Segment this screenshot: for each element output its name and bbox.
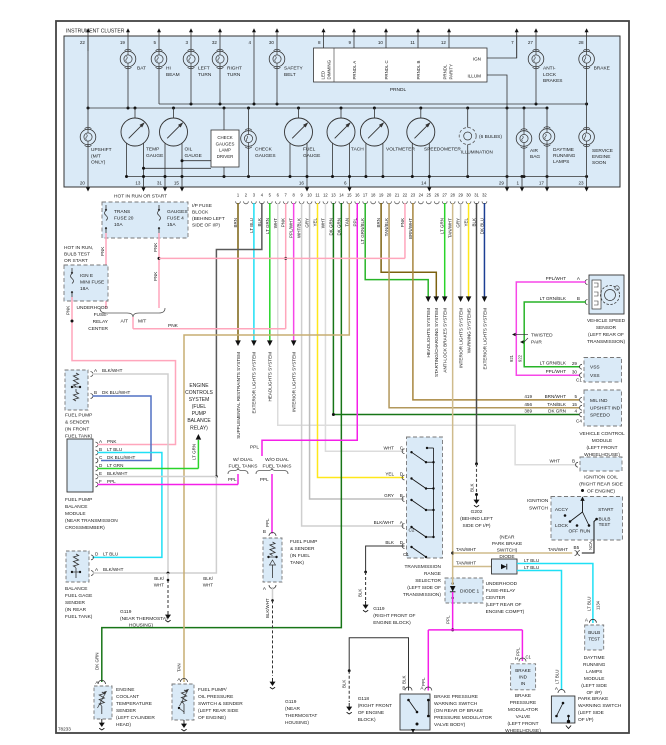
svg-text:RUN: RUN bbox=[580, 529, 591, 535]
svg-text:29: 29 bbox=[458, 193, 463, 198]
svg-text:(LEFT FRONT: (LEFT FRONT bbox=[507, 721, 538, 727]
svg-text:START: START bbox=[598, 507, 613, 513]
svg-text:IGNITION: IGNITION bbox=[527, 498, 549, 504]
check gauges lamp driver box bbox=[211, 130, 239, 167]
svg-text:UNDERHOOD: UNDERHOOD bbox=[486, 581, 518, 587]
wire LT GRN/BLK vss bbox=[524, 302, 586, 367]
gauge TACH bbox=[327, 118, 355, 146]
svg-text:13: 13 bbox=[135, 181, 141, 186]
svg-text:16: 16 bbox=[355, 193, 360, 198]
svg-text:DK BLU/WHT: DK BLU/WHT bbox=[102, 390, 131, 395]
svg-text:26: 26 bbox=[434, 193, 439, 198]
svg-text:PARITY: PARITY bbox=[449, 64, 454, 80]
wire LT GRN to engine controls bbox=[197, 440, 199, 469]
svg-text:12: 12 bbox=[441, 40, 447, 45]
svg-text:A: A bbox=[99, 439, 103, 444]
svg-text:9: 9 bbox=[348, 40, 351, 45]
svg-text:5: 5 bbox=[269, 193, 272, 198]
svg-text:6: 6 bbox=[344, 181, 347, 186]
svg-text:HOT IN RUN OR START: HOT IN RUN OR START bbox=[114, 194, 167, 200]
svg-text:3: 3 bbox=[185, 40, 188, 45]
svg-text:LT BLU: LT BLU bbox=[587, 597, 592, 611]
svg-text:VSS: VSS bbox=[590, 373, 600, 379]
ground G202 bbox=[476, 496, 478, 500]
svg-text:5: 5 bbox=[153, 40, 156, 45]
svg-text:456: 456 bbox=[524, 402, 532, 407]
svg-text:17: 17 bbox=[363, 193, 368, 198]
svg-text:B: B bbox=[94, 390, 97, 395]
svg-text:31: 31 bbox=[157, 181, 163, 186]
ground G119 center bbox=[365, 601, 367, 605]
balance fuel gage sender box bbox=[66, 551, 89, 582]
svg-text:10: 10 bbox=[378, 40, 384, 45]
svg-text:30: 30 bbox=[572, 370, 578, 375]
svg-text:SIDE OF I/P): SIDE OF I/P) bbox=[192, 223, 220, 229]
wire 31 BLK bbox=[476, 203, 478, 464]
wire 4 BLK bbox=[216, 203, 261, 477]
svg-text:(LEFT CYLINDER: (LEFT CYLINDER bbox=[116, 715, 155, 721]
svg-text:BRAKE: BRAKE bbox=[515, 693, 531, 699]
indicator bulb LEFT TURN bbox=[183, 51, 199, 67]
svg-text:2: 2 bbox=[245, 193, 248, 198]
svg-text:24: 24 bbox=[419, 193, 424, 198]
svg-text:SENSOR: SENSOR bbox=[596, 325, 617, 331]
svg-text:FUEL PUMP/: FUEL PUMP/ bbox=[198, 687, 227, 693]
svg-text:WARNING SYSTEMS: WARNING SYSTEMS bbox=[466, 308, 471, 353]
svg-text:A/T: A/T bbox=[121, 319, 129, 325]
svg-text:A: A bbox=[263, 586, 267, 591]
wire 17 LT GRN/BLK bbox=[365, 203, 428, 297]
svg-text:FUSE-RELAY: FUSE-RELAY bbox=[486, 588, 517, 594]
wire 30 YEL bbox=[468, 203, 470, 297]
svg-text:EXTERIOR LIGHTS SYSTEM: EXTERIOR LIGHTS SYSTEM bbox=[252, 352, 257, 414]
svg-text:G119: G119 bbox=[373, 606, 385, 612]
svg-text:BAG: BAG bbox=[530, 154, 540, 160]
svg-text:WARNING SWITCH: WARNING SWITCH bbox=[578, 703, 622, 709]
svg-text:LAMPS: LAMPS bbox=[586, 669, 602, 675]
svg-text:(IN FUEL: (IN FUEL bbox=[290, 553, 310, 559]
svg-text:OIL PRESSURE: OIL PRESSURE bbox=[198, 694, 233, 700]
wire 9 WHT/BLK bbox=[302, 203, 404, 526]
svg-text:BRAKE: BRAKE bbox=[594, 66, 610, 72]
svg-text:AIR: AIR bbox=[530, 148, 539, 154]
ground coolant sender bbox=[101, 719, 103, 723]
svg-text:LT BLU: LT BLU bbox=[524, 565, 539, 570]
svg-text:G118: G118 bbox=[358, 696, 370, 702]
svg-text:TWISTED: TWISTED bbox=[531, 333, 553, 339]
svg-text:15A: 15A bbox=[167, 222, 176, 228]
wire BLK dashed to G118 bbox=[348, 671, 350, 702]
PRNDL display module bbox=[314, 48, 488, 82]
svg-text:A: A bbox=[577, 276, 581, 281]
svg-text:B5: B5 bbox=[574, 545, 580, 550]
svg-text:SOON: SOON bbox=[592, 160, 607, 166]
svg-text:7: 7 bbox=[285, 193, 288, 198]
svg-text:FUSE-: FUSE- bbox=[94, 312, 109, 318]
indicator bulb SAFETY BELT bbox=[269, 51, 285, 67]
svg-text:4: 4 bbox=[248, 40, 251, 45]
svg-text:30: 30 bbox=[466, 193, 471, 198]
svg-text:BRAKES: BRAKES bbox=[543, 78, 562, 84]
svg-text:G202: G202 bbox=[471, 509, 483, 515]
svg-text:TURN: TURN bbox=[198, 72, 212, 78]
I/P fuse block box bbox=[102, 202, 188, 238]
svg-text:D: D bbox=[95, 552, 99, 557]
svg-text:HOUSING): HOUSING) bbox=[129, 623, 153, 629]
svg-text:PNK: PNK bbox=[100, 247, 105, 256]
transmission range selector bbox=[407, 437, 443, 558]
svg-text:PRNDL: PRNDL bbox=[443, 64, 448, 79]
svg-text:RELAY): RELAY) bbox=[190, 426, 208, 432]
svg-text:419: 419 bbox=[524, 394, 532, 399]
svg-text:(BEHIND LEFT: (BEHIND LEFT bbox=[460, 516, 493, 522]
svg-text:ILLUMINATION: ILLUMINATION bbox=[461, 150, 493, 155]
svg-text:CROSSMEMBER): CROSSMEMBER) bbox=[65, 525, 105, 531]
svg-text:DAYTIME: DAYTIME bbox=[584, 655, 605, 661]
svg-text:ENGINE: ENGINE bbox=[592, 154, 610, 160]
svg-text:G119: G119 bbox=[120, 609, 132, 615]
ignition switch bbox=[551, 497, 623, 541]
svg-text:E: E bbox=[99, 471, 102, 476]
IGN E mini fuse box bbox=[64, 265, 108, 301]
svg-text:BLK: BLK bbox=[342, 680, 347, 688]
svg-text:19: 19 bbox=[379, 193, 384, 198]
svg-text:(IN REAR: (IN REAR bbox=[65, 607, 87, 613]
svg-text:PPL: PPL bbox=[228, 477, 237, 482]
svg-text:TRANS: TRANS bbox=[114, 209, 130, 215]
svg-text:32: 32 bbox=[212, 40, 218, 45]
svg-text:SPEEDOMETER: SPEEDOMETER bbox=[424, 147, 461, 153]
svg-text:PPL: PPL bbox=[265, 518, 270, 527]
wire 14 DK GRN bbox=[102, 203, 342, 682]
wire A PNK stub bbox=[98, 444, 102, 446]
svg-text:TAN/WHT: TAN/WHT bbox=[548, 547, 568, 552]
wire PPL to brake switch A bbox=[427, 630, 429, 691]
svg-text:6: 6 bbox=[277, 193, 280, 198]
svg-text:BEAM: BEAM bbox=[166, 72, 180, 78]
svg-text:D: D bbox=[400, 472, 404, 477]
svg-text:SERVICE: SERVICE bbox=[592, 148, 613, 154]
svg-text:MIL IND: MIL IND bbox=[590, 398, 608, 404]
wire PPL wo-dual branch bbox=[271, 474, 273, 534]
svg-text:ENGINE: ENGINE bbox=[189, 383, 209, 389]
svg-text:WHT: WHT bbox=[154, 583, 164, 588]
indicator bulb CHECK GAUGES bbox=[248, 108, 250, 131]
svg-text:MODULE: MODULE bbox=[65, 511, 86, 517]
svg-text:BULB: BULB bbox=[588, 630, 600, 635]
svg-text:FUSE 20: FUSE 20 bbox=[114, 216, 134, 222]
svg-text:TACH: TACH bbox=[351, 147, 364, 153]
svg-text:GAUGES: GAUGES bbox=[216, 141, 235, 146]
svg-text:18: 18 bbox=[371, 193, 376, 198]
svg-text:GAUGE: GAUGE bbox=[146, 153, 163, 159]
svg-text:A: A bbox=[95, 567, 99, 572]
wire 10 GRY bbox=[310, 203, 404, 499]
svg-text:BALANCE: BALANCE bbox=[187, 418, 211, 424]
svg-text:TURN: TURN bbox=[227, 72, 241, 78]
svg-text:B: B bbox=[402, 686, 405, 691]
svg-text:INSTRUMENT CLUSTER: INSTRUMENT CLUSTER bbox=[66, 29, 125, 35]
svg-text:(6 BULBS): (6 BULBS) bbox=[479, 134, 502, 140]
vss module box bbox=[584, 358, 622, 383]
cluster bus line A bbox=[159, 103, 587, 105]
svg-text:DK BLU/WHT: DK BLU/WHT bbox=[107, 455, 136, 460]
svg-text:PRESSURE: PRESSURE bbox=[510, 700, 536, 706]
svg-text:PRNDL B: PRNDL B bbox=[416, 61, 421, 80]
svg-text:MODULATOR: MODULATOR bbox=[508, 707, 539, 713]
svg-text:OF I/P): OF I/P) bbox=[586, 690, 602, 696]
wire B LT BLU bbox=[93, 453, 162, 558]
wire 13 DK GRN bbox=[333, 203, 579, 415]
wire 29 GRY bbox=[460, 203, 462, 297]
wire IGN pin7 to module bbox=[487, 36, 517, 58]
svg-text:UNDERHOOD: UNDERHOOD bbox=[77, 305, 109, 311]
ground park brake bbox=[566, 726, 571, 729]
svg-text:DIODE 1: DIODE 1 bbox=[460, 589, 480, 595]
ground oil pressure bbox=[183, 720, 185, 724]
svg-text:LT GRN/BLK: LT GRN/BLK bbox=[540, 361, 567, 366]
svg-text:BLK/WHT: BLK/WHT bbox=[102, 368, 123, 373]
svg-text:B: B bbox=[577, 296, 580, 301]
svg-text:OF I/P): OF I/P) bbox=[578, 717, 594, 723]
svg-text:HOT IN RUN,: HOT IN RUN, bbox=[64, 245, 93, 251]
gauge VOLTMETER bbox=[360, 118, 388, 146]
svg-text:OIL: OIL bbox=[185, 147, 193, 153]
svg-text:FUEL: FUEL bbox=[303, 147, 316, 153]
A/T M/T brace bbox=[100, 308, 165, 317]
twisted pair note bbox=[512, 333, 516, 337]
wire 6 WHT bbox=[278, 203, 577, 465]
svg-text:PPL: PPL bbox=[107, 479, 116, 484]
svg-text:30: 30 bbox=[269, 40, 275, 45]
wire BLK selector D bbox=[366, 546, 405, 572]
svg-text:CHECK: CHECK bbox=[217, 135, 232, 140]
svg-text:(FUEL: (FUEL bbox=[192, 404, 207, 410]
svg-text:(M/T: (M/T bbox=[91, 153, 101, 159]
svg-text:OF ENGINE): OF ENGINE) bbox=[198, 715, 226, 721]
svg-text:TEST: TEST bbox=[588, 637, 600, 642]
svg-text:PNK: PNK bbox=[107, 439, 117, 444]
wire PPL to brake ind bbox=[521, 630, 523, 661]
svg-text:PPL/WHT: PPL/WHT bbox=[546, 369, 567, 374]
svg-text:7: 7 bbox=[511, 40, 514, 45]
svg-text:LT GRN: LT GRN bbox=[192, 444, 197, 460]
svg-text:C: C bbox=[99, 455, 103, 460]
svg-text:BLK/WHT: BLK/WHT bbox=[374, 520, 395, 525]
svg-text:SENDER: SENDER bbox=[116, 708, 137, 714]
svg-text:IN: IN bbox=[521, 681, 526, 686]
svg-text:DAYTIME: DAYTIME bbox=[553, 147, 574, 153]
svg-text:22: 22 bbox=[403, 193, 408, 198]
svg-text:CENTER: CENTER bbox=[486, 595, 506, 601]
svg-text:IGN: IGN bbox=[473, 57, 481, 62]
svg-text:F: F bbox=[99, 479, 102, 484]
indicator bulb HI BEAM bbox=[151, 51, 167, 67]
fuse GAUGES FUSE 4 bbox=[158, 205, 160, 209]
svg-text:VALVE BODY): VALVE BODY) bbox=[434, 722, 466, 728]
svg-text:LT GRN/BLK: LT GRN/BLK bbox=[540, 296, 567, 301]
svg-text:(NEAR THERMOSTAT: (NEAR THERMOSTAT bbox=[120, 616, 169, 622]
wire 27 LT GRN bbox=[444, 203, 446, 297]
svg-text:LT BLU: LT BLU bbox=[107, 447, 122, 452]
svg-text:TRANSMISSION): TRANSMISSION) bbox=[587, 339, 626, 345]
svg-text:M/T: M/T bbox=[138, 319, 146, 325]
wire DK BLU/WHT front sender bbox=[93, 396, 152, 461]
svg-text:PRNDL A: PRNDL A bbox=[352, 61, 357, 80]
svg-text:4: 4 bbox=[261, 193, 264, 198]
svg-text:PPL: PPL bbox=[260, 477, 269, 482]
svg-text:D: D bbox=[400, 540, 404, 545]
braces fuel tanks bbox=[228, 468, 248, 474]
svg-text:WHT: WHT bbox=[384, 445, 395, 450]
svg-text:BLK/WHT: BLK/WHT bbox=[103, 567, 124, 572]
vehicle control module box bbox=[584, 390, 622, 426]
svg-text:SWITCH: SWITCH bbox=[529, 506, 548, 512]
svg-text:FUEL PUMP: FUEL PUMP bbox=[65, 497, 92, 503]
svg-text:GAUGES: GAUGES bbox=[255, 153, 276, 159]
svg-text:(NEAR: (NEAR bbox=[285, 706, 300, 712]
svg-text:PNK: PNK bbox=[153, 243, 158, 252]
svg-text:VSS: VSS bbox=[590, 365, 600, 371]
svg-text:& SENDER: & SENDER bbox=[65, 420, 90, 426]
svg-text:1: 1 bbox=[237, 193, 240, 198]
svg-text:ENGINE: ENGINE bbox=[116, 687, 134, 693]
svg-text:MODULE: MODULE bbox=[584, 676, 605, 682]
svg-text:RIGHT: RIGHT bbox=[227, 66, 242, 72]
wire 28 TAN/WHT bbox=[452, 203, 454, 567]
svg-text:OF ENGINE: OF ENGINE bbox=[358, 710, 384, 716]
svg-text:FUEL PUMP: FUEL PUMP bbox=[290, 539, 317, 545]
svg-text:(LEFT REAR SIDE: (LEFT REAR SIDE bbox=[198, 708, 238, 714]
svg-text:B: B bbox=[99, 447, 102, 452]
svg-text:TRANSMISSION): TRANSMISSION) bbox=[403, 592, 442, 598]
svg-text:TANK): TANK) bbox=[290, 560, 304, 566]
diode 1 box bbox=[445, 578, 483, 603]
svg-text:HEAD): HEAD) bbox=[116, 722, 131, 728]
svg-text:TEMPERATURE: TEMPERATURE bbox=[116, 701, 152, 707]
wire PNK bus upper bbox=[159, 257, 405, 259]
svg-text:LAMPS: LAMPS bbox=[553, 159, 569, 165]
svg-text:LED: LED bbox=[321, 71, 326, 80]
wire 8 PPL/WHT bbox=[293, 203, 295, 341]
svg-text:11: 11 bbox=[410, 40, 415, 45]
wire BLK/WHT to G119 left bbox=[167, 573, 169, 580]
wire BLK/WHT front sender bbox=[93, 374, 169, 573]
svg-text:STARTING/CHARGING SYSTEM: STARTING/CHARGING SYSTEM bbox=[434, 308, 439, 377]
svg-text:I/P FUSE: I/P FUSE bbox=[192, 203, 212, 209]
oil pressure switch box bbox=[172, 684, 194, 720]
svg-text:DRIVER: DRIVER bbox=[217, 154, 234, 159]
svg-text:13: 13 bbox=[331, 193, 336, 198]
svg-text:RUNNING: RUNNING bbox=[583, 662, 606, 668]
svg-text:FUEL TANKS: FUEL TANKS bbox=[229, 464, 258, 470]
vehicle speed sensor bbox=[589, 275, 624, 314]
svg-text:RANGE: RANGE bbox=[424, 571, 441, 577]
svg-text:OFF: OFF bbox=[569, 529, 579, 535]
svg-text:TEMP: TEMP bbox=[146, 147, 159, 153]
svg-text:PRESSURE MODULATOR: PRESSURE MODULATOR bbox=[434, 715, 492, 721]
svg-text:ENGINE COMPT): ENGINE COMPT) bbox=[486, 609, 525, 615]
svg-text:BLK: BLK bbox=[470, 483, 475, 492]
svg-text:WARNING SWITCH: WARNING SWITCH bbox=[434, 701, 478, 707]
svg-text:EXTERIOR LIGHTS SYSTEM: EXTERIOR LIGHTS SYSTEM bbox=[482, 308, 487, 370]
svg-text:IGN E: IGN E bbox=[80, 273, 93, 279]
svg-text:C1: C1 bbox=[403, 552, 409, 557]
wire F PPL bbox=[98, 484, 239, 486]
instrument cluster box bbox=[64, 36, 620, 187]
svg-text:B: B bbox=[572, 459, 575, 464]
svg-text:GRY: GRY bbox=[384, 493, 394, 498]
svg-text:HEADLIGHTS SYSTEM: HEADLIGHTS SYSTEM bbox=[268, 352, 273, 402]
fuel pump and sender front box bbox=[65, 370, 88, 410]
park brake warning switch box bbox=[551, 696, 575, 723]
svg-text:IND: IND bbox=[519, 675, 528, 680]
svg-text:BLK/WHT: BLK/WHT bbox=[107, 471, 128, 476]
svg-text:ONLY): ONLY) bbox=[91, 160, 106, 166]
svg-text:CONTROLS: CONTROLS bbox=[185, 390, 213, 396]
svg-text:25: 25 bbox=[427, 193, 432, 198]
svg-text:28: 28 bbox=[450, 193, 455, 198]
svg-text:IGNITION COIL: IGNITION COIL bbox=[584, 475, 618, 481]
svg-text:10A: 10A bbox=[114, 222, 123, 228]
svg-text:SUPPLEMENTAL RESTRAINTS SYSTEM: SUPPLEMENTAL RESTRAINTS SYSTEM bbox=[236, 352, 241, 439]
wire LT BLU upper bbox=[517, 564, 593, 624]
wire NCA from start bbox=[582, 519, 597, 553]
wire 16 PPL bbox=[262, 203, 357, 456]
wire 20 TAN/BLK bbox=[389, 203, 579, 408]
indicator bulb RIGHT TURN bbox=[212, 51, 228, 67]
svg-text:(LEFT FRONT: (LEFT FRONT bbox=[586, 445, 617, 451]
svg-text:THERMOSTAT: THERMOSTAT bbox=[285, 713, 317, 719]
svg-text:15: 15 bbox=[347, 193, 352, 198]
svg-text:FUEL PUMP: FUEL PUMP bbox=[65, 413, 92, 419]
svg-text:29: 29 bbox=[499, 181, 505, 186]
svg-text:TAN: TAN bbox=[177, 663, 182, 672]
wire E BLK/WHT bbox=[98, 476, 217, 478]
svg-text:BLK/WHT: BLK/WHT bbox=[265, 598, 270, 618]
svg-text:GAUGES: GAUGES bbox=[167, 209, 188, 215]
svg-text:21: 21 bbox=[395, 193, 400, 198]
svg-text:BLK: BLK bbox=[385, 540, 395, 545]
svg-text:PNK: PNK bbox=[65, 306, 70, 315]
wire 7 PNK bbox=[285, 203, 287, 329]
svg-text:SYSTEM: SYSTEM bbox=[189, 397, 210, 403]
svg-text:(IN FRONT: (IN FRONT bbox=[65, 427, 89, 433]
wire 1 BRN bbox=[237, 203, 239, 341]
svg-text:20: 20 bbox=[80, 181, 86, 186]
wire 3 LT BLU bbox=[253, 203, 255, 341]
wire 22 PNK bbox=[404, 203, 406, 258]
svg-text:RUNNING: RUNNING bbox=[553, 153, 576, 159]
svg-text:TAN/BLK: TAN/BLK bbox=[547, 402, 567, 407]
wire 32 DK BLU bbox=[483, 203, 485, 297]
svg-text:C: C bbox=[400, 445, 404, 450]
svg-text:14: 14 bbox=[339, 193, 344, 198]
svg-text:A: A bbox=[94, 368, 98, 373]
wire 5 LT GRN bbox=[269, 203, 271, 341]
diode box near park brake bbox=[492, 559, 518, 574]
svg-text:SPEEDO: SPEEDO bbox=[590, 413, 610, 419]
svg-text:32: 32 bbox=[482, 193, 487, 198]
svg-text:27: 27 bbox=[442, 193, 447, 198]
svg-text:LOCK: LOCK bbox=[543, 72, 557, 78]
indicator bulb ANTI-LOCK BRAKES bbox=[528, 51, 544, 67]
svg-text:RELAY: RELAY bbox=[93, 319, 109, 325]
svg-text:921: 921 bbox=[509, 354, 514, 362]
svg-text:INTERIOR LIGHTS SYSTEM: INTERIOR LIGHTS SYSTEM bbox=[291, 352, 296, 412]
svg-text:OF ENGINE): OF ENGINE) bbox=[587, 489, 615, 495]
indicator bulb AIR BAG bbox=[523, 108, 525, 132]
